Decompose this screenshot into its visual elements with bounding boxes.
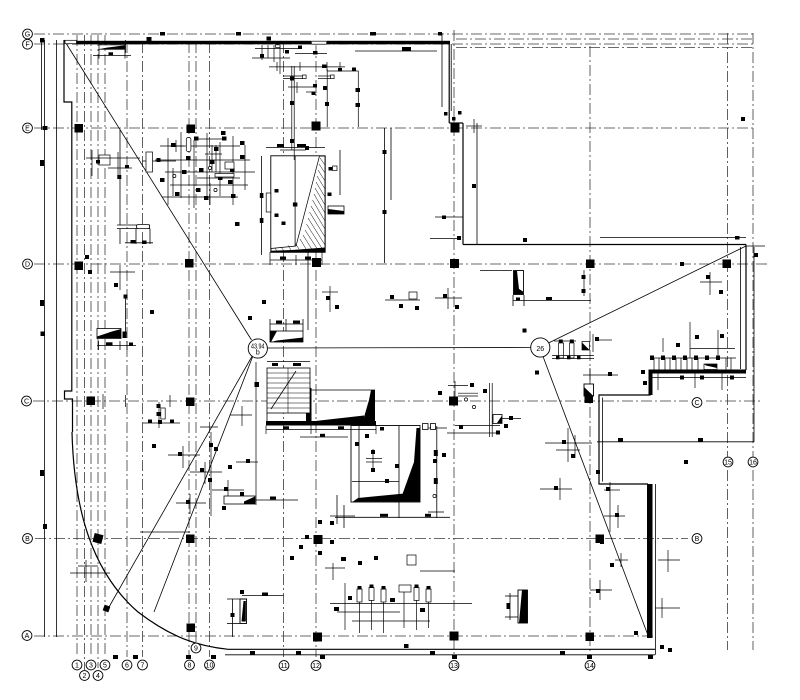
svg-text:F: F [25, 42, 29, 49]
top-right dim line above edge [600, 237, 746, 239]
top-right horizontal edge [463, 244, 746, 246]
grid line 9 [195, 42, 197, 643]
grid line 16 [752, 33, 754, 650]
long dimension line right side [597, 441, 754, 443]
grid row D [34, 263, 768, 265]
row C tick details left [103, 394, 218, 428]
right edge x463 [462, 123, 464, 245]
column A8 [187, 624, 196, 633]
column E13 [451, 124, 460, 133]
grid row A [34, 635, 656, 637]
svg-text:C: C [694, 400, 699, 407]
col bubble 4 [93, 671, 103, 681]
corner piece top-left [65, 40, 77, 43]
leader from callout 43.94 to curved wall [154, 357, 253, 612]
building bottom-left arc [72, 432, 228, 649]
grid line 6 [126, 42, 128, 657]
building left edge upper [64, 40, 73, 432]
wall line ramp to stairs [307, 252, 309, 330]
column C14 [585, 395, 594, 404]
callout circle 43.94 [248, 339, 267, 358]
shear wall shape1 inner wedge [311, 416, 364, 422]
dim vertical right margin [753, 247, 755, 442]
end marker diamond [103, 605, 111, 613]
grid row C right stub [706, 400, 760, 402]
svg-text:3: 3 [89, 663, 93, 670]
leader between callouts [268, 347, 531, 350]
long beam verticals row E-D [384, 128, 386, 263]
col bubble 8 [185, 660, 195, 670]
beam haunch below top bar left [99, 45, 125, 49]
left margin dimension line outer [44, 40, 46, 637]
column B12 [314, 535, 323, 544]
rail detail left (117-150,224-243) [117, 224, 150, 226]
right edge parallel x477 [476, 123, 478, 245]
col bubble 2 [80, 671, 90, 681]
svg-text:C: C [24, 399, 29, 406]
row bubble G [23, 29, 33, 39]
LEADERS [64, 40, 746, 638]
bottom-right corner verticals [655, 484, 657, 655]
col bubble 14 [585, 661, 595, 671]
grid line 3 [90, 35, 92, 657]
svg-text:8: 8 [188, 663, 192, 670]
right thick wall bar horizontal near C [649, 370, 747, 374]
ramp exit pier [328, 206, 344, 214]
wedge detail right of callout [270, 331, 303, 342]
col bubble 15 [723, 457, 733, 467]
grid row B [35, 538, 688, 540]
grid row G [34, 33, 755, 35]
column C3 [87, 397, 96, 406]
beam detail crosses along leader [140, 362, 258, 532]
ramp structure [271, 156, 325, 253]
column B14 [596, 535, 605, 544]
misc small marks row D left [110, 265, 722, 312]
column C13 [449, 397, 458, 406]
grid line 8 [188, 42, 190, 657]
svg-text:A: A [25, 633, 30, 640]
column D14 [586, 260, 595, 269]
col bubble 12 [311, 661, 321, 671]
shape2 inner dim cross [366, 449, 382, 470]
dimension line right of corner [435, 216, 463, 218]
svg-text:2: 2 [83, 673, 87, 680]
svg-text:26: 26 [536, 346, 544, 353]
svg-text:14: 14 [586, 663, 594, 670]
right edge from top-right corner down [745, 245, 747, 371]
vertical wall line x120 [119, 130, 121, 225]
svg-text:9: 9 [194, 646, 198, 653]
stairs dimension [267, 361, 310, 363]
building bottom edge double line lower [225, 654, 655, 656]
ramp small marks [275, 167, 333, 225]
leader from callout 43.94 down-left [109, 356, 253, 608]
svg-text:E: E [25, 126, 30, 133]
dim crosses above pier band [70, 560, 345, 582]
cluster right of column C13 [433, 381, 521, 498]
svg-text:b: b [256, 350, 260, 357]
column A14 [586, 633, 595, 642]
column A12 [313, 633, 322, 642]
svg-text:7: 7 [141, 663, 145, 670]
svg-text:15: 15 [724, 460, 732, 467]
pier detail bottom right (518-527,590-623) [518, 590, 528, 623]
ramp bottom wedge [271, 248, 325, 253]
grid line 12 [315, 42, 317, 657]
bottom-centre pier band [330, 555, 472, 633]
DETAILS [40, 32, 745, 659]
shear wall shape2 bottom wedge [353, 492, 420, 502]
grid row C [33, 400, 688, 402]
grid line 15 [727, 33, 729, 650]
column E1 [75, 124, 84, 133]
svg-text:6: 6 [125, 663, 129, 670]
shear wall shape1 top line [311, 389, 375, 391]
stairs [267, 368, 310, 413]
pier row above right thick bar [650, 322, 736, 370]
column D1 [75, 262, 84, 271]
grid row E [34, 127, 755, 129]
col bubble 13 [449, 661, 459, 671]
shape1 below-bar dims [266, 426, 376, 438]
row bubble B right [692, 534, 702, 544]
svg-text:G: G [25, 32, 30, 39]
svg-text:B: B [695, 536, 700, 543]
shape2 dimension lines [436, 426, 438, 518]
column D12 [312, 258, 321, 267]
grid line 7 [142, 42, 144, 657]
ramp left dim line [261, 156, 263, 255]
scattered ticks [160, 32, 745, 464]
wedge detail near line3 row C [97, 329, 121, 339]
col bubble 3 [86, 660, 96, 670]
pier detail mid right (513-523,270-295) [514, 271, 524, 295]
grid row F [34, 43, 755, 45]
column D15 [723, 260, 732, 269]
column E12 [312, 122, 321, 131]
svg-text:12: 12 [312, 663, 320, 670]
grid line 14 [589, 46, 591, 657]
svg-text:5: 5 [103, 663, 107, 670]
small white square near shape2 [423, 424, 429, 430]
right thick wall vertical stub [649, 370, 653, 396]
shear wall shape1 vertical bar [306, 388, 312, 424]
col bubble 11 [279, 661, 289, 671]
col bubble 7 [138, 660, 148, 670]
row bubble C right [692, 398, 702, 408]
grid line 1 [76, 35, 78, 657]
col bubble 10 [205, 660, 215, 670]
col bubble 5 [100, 660, 110, 670]
row bubble A [22, 631, 32, 641]
left margin dim ticks [40, 37, 152, 529]
row bubble C [22, 396, 32, 406]
svg-text:16: 16 [749, 460, 757, 467]
grid row F dashed continuations right of building [456, 38, 755, 40]
col bubble 1 [72, 660, 82, 670]
shape2 inner horizontal [352, 481, 399, 483]
ramp hatch wedge [271, 156, 325, 252]
COLUMNS [41, 111, 759, 642]
notch inner parallel [602, 398, 604, 482]
dim line below ramp [270, 252, 584, 300]
notch step below thick bar [599, 374, 650, 484]
grid line 13 [453, 30, 455, 657]
top shear wall bar [72, 41, 450, 45]
column B8 [186, 535, 195, 544]
WALLS [72, 40, 746, 638]
cluster below top bar centre [252, 45, 437, 160]
leader from callout 26 to bottom-right [543, 357, 649, 639]
building right edge below top bar [448, 44, 450, 123]
svg-text:4: 4 [96, 673, 100, 680]
building bottom edge double line upper [228, 648, 655, 650]
mid-left dense cluster (165-250,130-210) [86, 132, 255, 208]
column D8 [185, 259, 194, 268]
extra cluster texture [170, 139, 240, 205]
svg-text:11: 11 [280, 663, 287, 670]
col bubble 16 [748, 457, 758, 467]
col bubble 9 [191, 643, 201, 653]
row bubble E [23, 123, 33, 133]
pier detail near C14 [584, 384, 594, 396]
right thick wall bar vertical lower [647, 484, 653, 638]
grid line 10 [209, 42, 211, 657]
column E8 [187, 125, 196, 134]
leader from callout 26 to top-right corner [549, 246, 747, 343]
dimension line top-right [441, 33, 443, 107]
shear wall shape2 right wedge [400, 428, 420, 501]
details in right notch area [540, 428, 625, 532]
svg-text:D: D [25, 262, 30, 269]
column C8 [186, 398, 195, 407]
ramp left notch [266, 193, 271, 212]
left margin dimension line inner [56, 40, 58, 637]
leader from callout 43.94 to top-left corner [64, 40, 252, 340]
column A13 [450, 632, 459, 641]
column B4 diamond [93, 533, 104, 544]
jog at y123 [449, 122, 463, 124]
grid line 4 [97, 35, 99, 668]
shape2 inner vertical [398, 426, 400, 518]
bottom edge ticks [113, 651, 653, 659]
thin line below right thick bar [652, 377, 746, 379]
svg-text:B: B [25, 536, 30, 543]
shear wall shape1 bottom bar [266, 421, 376, 426]
white notch in top bar [311, 40, 327, 45]
svg-text:1: 1 [75, 663, 79, 670]
ramp dimension top [266, 147, 325, 149]
row bubble F [23, 39, 33, 49]
row bubble D [23, 259, 33, 269]
callout circle 26 [531, 338, 550, 357]
grid line 11 [283, 42, 285, 657]
column D13 [450, 259, 459, 268]
cluster right of callout 26 [552, 334, 612, 359]
grid line 2 [84, 35, 86, 670]
grid line 5 [104, 35, 106, 657]
building right edge inner line [450, 44, 452, 111]
col bubble 6 [122, 660, 132, 670]
row bubble B [23, 534, 33, 544]
right side extra details [590, 550, 680, 618]
pier detail left of band (240,599) [240, 599, 247, 624]
shear wall shape2 rect [351, 426, 420, 503]
shear wall shape1 right wedge [362, 390, 375, 424]
svg-text:13: 13 [450, 663, 458, 670]
svg-text:10: 10 [206, 663, 214, 670]
